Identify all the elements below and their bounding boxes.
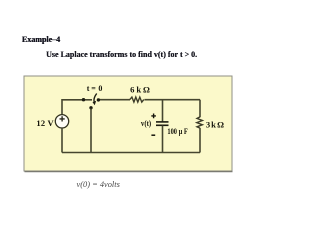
- label + polarity: [151, 114, 156, 119]
- svg-text:100 µ F: 100 µ F: [167, 127, 187, 136]
- wire: bottom rail: [62, 152, 200, 154]
- wire: top left segment from source to switch: [62, 100, 92, 115]
- capacitor lower wire: [162, 126, 164, 153]
- svg-text:t=0: t=0: [87, 84, 103, 93]
- switch t=0 : pole contact dot: [82, 98, 85, 101]
- wire: switch to 6k resistor: [100, 99, 131, 101]
- problem statement: [46, 50, 197, 59]
- resistor R 3k ohm (vertical zigzag): [197, 117, 203, 128]
- capacitor C 100uF branch: upper wire: [162, 100, 164, 122]
- wire: right vertical lower: [199, 128, 201, 153]
- circuit background panel: [24, 76, 233, 172]
- svg-text:12 V: 12 V: [36, 118, 54, 128]
- switch t=0 : right throw contact dot: [97, 98, 100, 101]
- voltage source V1 (circle): [55, 115, 68, 128]
- wire: switch lower contact down to bottom rail: [90, 109, 92, 153]
- wire: 6k resistor to top right corner: [144, 99, 200, 101]
- switch t=0 : blade arc with arrow: [93, 94, 97, 106]
- wire: right vertical upper: [199, 100, 201, 118]
- svg-text:6kΩ: 6kΩ: [130, 85, 150, 95]
- capacitor C plates: [156, 122, 169, 125]
- title Example-4: [22, 35, 60, 44]
- svg-text:3kΩ: 3kΩ: [206, 120, 224, 130]
- resistor R 6k ohm (zigzag): [130, 97, 144, 102]
- svg-text:v(t): v(t): [141, 119, 151, 128]
- initial condition v(0) = 4 volts: [77, 180, 120, 189]
- label - polarity: [151, 134, 155, 136]
- wire: left vertical below source: [61, 128, 63, 153]
- switch t=0 : lower throw contact dot: [89, 106, 92, 109]
